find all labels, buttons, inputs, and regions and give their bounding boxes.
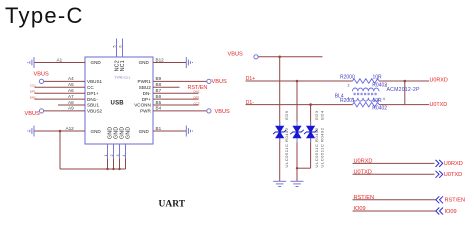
svg-text:GND: GND	[126, 127, 132, 139]
svg-text:R2000: R2000	[340, 74, 355, 80]
svg-text:VBUS1: VBUS1	[87, 79, 103, 84]
svg-text:B12: B12	[156, 57, 165, 62]
svg-text:ED4: ED4	[320, 110, 325, 120]
svg-text:B4: B4	[156, 106, 162, 111]
svg-text:B6: B6	[156, 94, 162, 99]
svg-text:4: 4	[383, 97, 385, 101]
svg-text:SBU1: SBU1	[87, 103, 99, 108]
svg-text:U0RXD: U0RXD	[444, 161, 463, 167]
svg-text:A5: A5	[68, 82, 74, 87]
svg-text:DN-: DN-	[143, 91, 152, 96]
svg-text:A4: A4	[68, 76, 74, 81]
svg-text:GND: GND	[91, 129, 102, 134]
svg-text:CC1: CC1	[30, 84, 36, 88]
svg-text:6: 6	[118, 46, 122, 48]
svg-text:U0RXD: U0RXD	[430, 77, 448, 83]
svg-text:ED9: ED9	[284, 110, 289, 120]
svg-text:B8: B8	[156, 82, 162, 87]
svg-text:B5: B5	[156, 100, 162, 105]
svg-text:DP+: DP+	[142, 97, 151, 102]
svg-text:DP2: DP2	[194, 95, 200, 99]
svg-text:SBU2: SBU2	[139, 85, 151, 90]
svg-text:UART: UART	[159, 200, 186, 210]
svg-text:4: 4	[122, 155, 126, 157]
svg-text:10R: 10R	[373, 74, 383, 80]
svg-text:1: 1	[104, 155, 108, 157]
svg-text:3: 3	[116, 155, 120, 157]
svg-text:PWR: PWR	[140, 109, 151, 114]
svg-text:U0TXD: U0TXD	[430, 102, 448, 108]
svg-text:B7: B7	[156, 88, 162, 93]
svg-text:ACM2012-2P: ACM2012-2P	[387, 87, 420, 93]
svg-text:A7: A7	[68, 94, 74, 99]
svg-text:3: 3	[385, 84, 387, 88]
svg-text:R0402: R0402	[372, 106, 387, 112]
svg-text:PWR1: PWR1	[138, 79, 152, 84]
svg-text:A8: A8	[68, 100, 74, 105]
svg-text:USB: USB	[111, 100, 125, 106]
svg-text:VBUS: VBUS	[215, 109, 231, 115]
svg-text:VCONN: VCONN	[134, 103, 151, 108]
svg-text:10R: 10R	[373, 98, 383, 104]
svg-text:U0TXD: U0TXD	[444, 172, 462, 178]
svg-text:VBUS: VBUS	[25, 111, 41, 117]
svg-text:NC1: NC1	[120, 60, 126, 71]
svg-text:DP1: DP1	[30, 90, 36, 94]
svg-text:1: 1	[348, 97, 350, 101]
svg-text:Type-C: Type-C	[5, 3, 84, 28]
svg-text:B9: B9	[156, 76, 162, 81]
svg-text:ED3: ED3	[314, 110, 319, 120]
svg-text:U0RXD: U0RXD	[354, 159, 373, 165]
svg-text:TYPE-C3.1: TYPE-C3.1	[115, 75, 131, 79]
svg-text:DN2: DN2	[194, 90, 200, 94]
svg-text:GND: GND	[91, 60, 102, 65]
svg-text:DN1-: DN1-	[87, 97, 98, 102]
svg-text:CC2: CC2	[194, 101, 200, 105]
svg-text:IO09: IO09	[445, 209, 457, 215]
svg-text:VBUS: VBUS	[34, 71, 50, 77]
svg-text:U0TXD: U0TXD	[354, 170, 372, 176]
svg-text:A9: A9	[68, 106, 74, 111]
svg-text:2: 2	[110, 155, 114, 157]
svg-text:GND: GND	[139, 60, 150, 65]
svg-text:ULC0511C R0402: ULC0511C R0402	[284, 127, 289, 167]
svg-text:A1: A1	[57, 57, 63, 62]
svg-text:DN1: DN1	[30, 95, 36, 99]
svg-text:RST/EN: RST/EN	[354, 195, 375, 201]
svg-text:VBUS2: VBUS2	[87, 109, 103, 114]
svg-text:GND: GND	[139, 129, 150, 134]
svg-text:IO09: IO09	[354, 206, 366, 212]
svg-text:A6: A6	[68, 88, 74, 93]
svg-text:ULC0511C R0402: ULC0511C R0402	[320, 127, 325, 167]
svg-text:2: 2	[348, 83, 350, 87]
svg-text:B1: B1	[156, 126, 162, 131]
svg-text:BL4: BL4	[335, 94, 344, 100]
svg-text:5: 5	[112, 46, 116, 48]
svg-text:CC: CC	[87, 85, 94, 90]
svg-text:VBUS: VBUS	[228, 52, 244, 58]
svg-text:ULC0511C R0402: ULC0511C R0402	[314, 127, 319, 167]
svg-text:VBUS: VBUS	[212, 79, 228, 85]
svg-text:DP1+: DP1+	[87, 91, 99, 96]
svg-text:A12: A12	[66, 126, 75, 131]
svg-text:RST/EN: RST/EN	[445, 198, 466, 204]
